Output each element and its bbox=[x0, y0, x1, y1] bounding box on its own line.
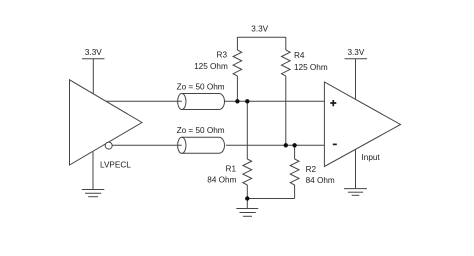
wire U1 true output to T1 bbox=[106, 100, 182, 102]
resistor R2 84 Ohm bbox=[290, 145, 335, 198]
op-amp U2 receiver bbox=[324, 82, 400, 167]
wire T1 to receiver + input bbox=[225, 100, 325, 102]
transmission line T1 Zo = 50 Ohm (top) bbox=[177, 83, 225, 110]
node E junction dot (R1 bottom / ground) bbox=[245, 196, 249, 200]
node D junction dot (R2 / bottom wire) bbox=[292, 143, 296, 147]
svg-text:84 Ohm: 84 Ohm bbox=[306, 176, 335, 185]
op-amp U1 LVPECL driver bbox=[70, 80, 143, 170]
resistor R3 125 Ohm bbox=[194, 37, 242, 101]
resistor R1 84 Ohm bbox=[207, 101, 251, 198]
svg-text:Input: Input bbox=[362, 153, 381, 162]
svg-text:R3: R3 bbox=[217, 51, 228, 60]
node A junction dot (R3 / top wire) bbox=[235, 99, 239, 103]
wire T2 to receiver - input bbox=[226, 144, 324, 146]
resistor R4 125 Ohm bbox=[281, 37, 327, 145]
power 3.3V (middle rail) bbox=[237, 25, 285, 38]
svg-text:Zo = 50 Ohm: Zo = 50 Ohm bbox=[177, 83, 225, 92]
node C junction dot (R4 / bottom wire) bbox=[284, 143, 288, 147]
svg-text:3.3V: 3.3V bbox=[347, 48, 364, 57]
svg-text:R4: R4 bbox=[294, 51, 305, 60]
ground (below U2) bbox=[344, 149, 367, 195]
svg-text:R1: R1 bbox=[226, 165, 237, 174]
svg-text:Zo = 50 Ohm: Zo = 50 Ohm bbox=[177, 126, 225, 135]
svg-text:125 Ohm: 125 Ohm bbox=[294, 63, 328, 72]
svg-text:84 Ohm: 84 Ohm bbox=[207, 176, 236, 185]
svg-text:3.3V: 3.3V bbox=[251, 25, 268, 34]
ground (termination, below R1) bbox=[236, 199, 258, 217]
power 3.3V (right supply) bbox=[345, 48, 368, 99]
node B junction dot (R1 / top wire) bbox=[245, 99, 249, 103]
svg-text:3.3V: 3.3V bbox=[85, 48, 102, 57]
inversion bubble on U1 inverting output bbox=[105, 142, 112, 149]
svg-text:125 Ohm: 125 Ohm bbox=[194, 62, 228, 71]
wire R1 bottom to R2 bottom bbox=[247, 198, 294, 200]
ground (below U1) bbox=[82, 152, 105, 197]
svg-text:R2: R2 bbox=[306, 165, 317, 174]
power 3.3V (left supply) bbox=[82, 48, 105, 94]
svg-text:LVPECL: LVPECL bbox=[100, 161, 131, 170]
transmission line T2 Zo = 50 Ohm (bottom) bbox=[177, 126, 225, 153]
wire U1 inverted output to T2 bbox=[112, 144, 182, 146]
